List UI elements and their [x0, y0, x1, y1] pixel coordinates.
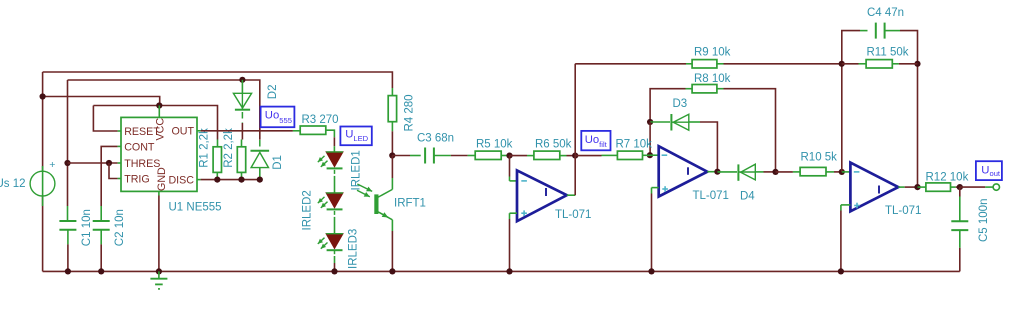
wire CONT to C2 — [101, 146, 117, 206]
wire minus2 vertical — [649, 122, 651, 155]
pin OUT stub — [197, 130, 201, 132]
node dot THRES branch — [64, 160, 70, 166]
svg-text:R5 10k: R5 10k — [476, 138, 513, 150]
svg-text:D4: D4 — [740, 190, 755, 202]
svg-text:R8 10k: R8 10k — [694, 73, 731, 85]
wire output2 stub — [707, 171, 716, 173]
node dot LED rail — [331, 268, 337, 274]
wire +12V left rail vertical from top rail to source — [42, 72, 44, 171]
svg-text:TL-071: TL-071 — [693, 190, 729, 202]
svg-text:R7 10k: R7 10k — [616, 138, 653, 150]
svg-text:IRLED2: IRLED2 — [302, 190, 314, 230]
wire GND pin down to rail — [158, 191, 160, 195]
wire plus1 stub and vertical to rail — [510, 212, 518, 214]
svg-text:IRLED1: IRLED1 — [351, 150, 363, 190]
resistor R2 body — [237, 147, 245, 173]
node dot D2 anode branch — [239, 77, 245, 83]
wire R4 bottom lead — [391, 122, 393, 132]
op-amp2 minus sign — [662, 154, 668, 156]
wire VCC feed from rail — [43, 97, 160, 106]
node dot C2 rail — [98, 268, 104, 274]
op-amp U2 TL-071 triangle — [517, 170, 567, 221]
node dot R11 left — [839, 61, 845, 67]
svg-text:+: + — [49, 159, 55, 171]
resistor R3 body — [300, 126, 326, 134]
node dot D1 bottom — [257, 177, 263, 183]
wire through D2 triangle — [241, 93, 243, 109]
op-amp1 plus sign — [521, 212, 527, 214]
op-amp U3 TL-071 triangle — [659, 146, 708, 196]
op-amp3 plus sign — [854, 205, 860, 207]
wire D2 anode lead — [241, 80, 243, 94]
node dot R4/C3/collector — [389, 152, 395, 158]
wire R11 left lead — [842, 63, 859, 65]
pin CONT stub — [118, 145, 121, 147]
diode D3 cathode bar — [670, 114, 672, 131]
capacitor C4 plates — [875, 23, 877, 39]
wire R2 top green stub — [241, 140, 243, 147]
resistor R11 body — [866, 60, 892, 68]
LED IRLED1 light arrows — [318, 156, 325, 162]
resistor R6 body — [534, 151, 560, 159]
transistor IRFT1 light arrows — [357, 184, 372, 191]
capacitor C3 plates — [424, 148, 426, 164]
node dot R1 bottom — [214, 177, 220, 183]
op-amp1 minus sign — [521, 180, 527, 182]
svg-text:R3 270: R3 270 — [302, 114, 339, 126]
svg-text:D2: D2 — [267, 84, 279, 99]
wire R1 top green stub — [217, 140, 219, 147]
wire plus3 stub and vertical — [841, 204, 851, 206]
node dot plus2 rail — [648, 268, 654, 274]
resistor R1 body — [213, 147, 221, 173]
LED IRLED3 cathode bar — [327, 249, 343, 251]
svg-text:R1 2,2k: R1 2,2k — [199, 128, 211, 168]
svg-text:R6 50k: R6 50k — [535, 138, 572, 150]
resistor R12 body — [926, 183, 951, 191]
pin THRES stub — [118, 162, 121, 164]
wire output1 stub — [567, 194, 575, 196]
wire THRES vertical to C1 — [67, 80, 69, 206]
diode D2 triangle — [233, 93, 251, 108]
diode D1 cathode bar — [251, 150, 270, 152]
resistor R4 body — [388, 96, 396, 122]
wire R3 to LED chain corner — [326, 130, 335, 137]
wire minus3 vertical up to feedback — [842, 31, 860, 172]
wire below IRLED3 to rail — [334, 250, 336, 256]
node dot VCC junction — [156, 102, 162, 108]
node dot R2 bottom — [238, 177, 244, 183]
resistor R7 body — [617, 151, 642, 159]
LED IRLED2 light arrows — [318, 197, 325, 203]
node dot TRIG branch — [106, 160, 112, 166]
wire C5 top lead — [959, 187, 961, 196]
svg-text:OUT: OUT — [171, 126, 194, 138]
wire R1 bottom lead — [216, 172, 218, 176]
LED IRLED3 triangle — [326, 234, 343, 249]
node dot rail-VCC branch — [40, 93, 46, 99]
op-amp3 minus sign — [854, 171, 860, 173]
wire through D3 triangle — [671, 121, 688, 123]
svg-text:C5 100n: C5 100n — [978, 199, 990, 242]
wire C5 bottom lead to rail — [959, 230, 961, 248]
wire left rail below source to ground rail — [42, 196, 44, 272]
wire D1 anode lead — [259, 168, 261, 180]
resistor R8 body — [692, 85, 717, 93]
node dot emitter rail — [389, 268, 395, 274]
node dot plus1 rail — [506, 268, 512, 274]
transistor IRFT1 base bar — [374, 194, 378, 214]
wire C4 right lead — [885, 30, 900, 32]
pin RESET stub — [118, 130, 121, 132]
wire R8 right corner down — [717, 88, 724, 90]
svg-text:R2 2,2k: R2 2,2k — [223, 128, 235, 168]
wire output3 stub — [898, 186, 904, 188]
svg-text:U1 NE555: U1 NE555 — [169, 201, 222, 213]
wire RESET/VCC/R1 net horizontal — [93, 106, 217, 140]
diode D3 triangle — [673, 114, 689, 130]
wire R10 to minus3 node — [826, 171, 834, 173]
pin TRIG stub — [118, 178, 121, 180]
svg-text:C4 47n: C4 47n — [867, 7, 904, 19]
svg-text:C1 10n: C1 10n — [81, 209, 93, 246]
node dot plus3 rail — [838, 268, 844, 274]
transistor IRFT1 emitter diagonal with arrow — [378, 212, 393, 220]
wire RESET branch down-left — [93, 106, 117, 132]
node dot output2 — [714, 169, 720, 175]
node dot R5/R6/minus1 — [506, 153, 512, 159]
pin DISC stub — [197, 179, 201, 181]
svg-text:GND: GND — [156, 167, 168, 191]
wire dot to C3 — [392, 155, 410, 157]
capacitor C5 plates — [951, 220, 968, 222]
wire ground rail — [43, 270, 960, 272]
wire minus3 stub — [842, 171, 851, 173]
wire C3 to R5 — [434, 155, 451, 157]
wire OUT to R3 — [201, 130, 293, 132]
wire Uofilt row to R7 — [575, 155, 601, 157]
wire D1 cathode dashed — [259, 140, 261, 150]
diode D2 cathode bar — [235, 109, 250, 111]
svg-text:C3 68n: C3 68n — [417, 133, 454, 145]
op IC U1 NE555 box — [121, 117, 197, 191]
wire R8 row — [650, 89, 685, 122]
wire node to output terminal — [960, 186, 986, 188]
wire THRES top net y80 — [68, 80, 260, 140]
node dot feedback opamp1 — [572, 153, 578, 159]
svg-text:R10 5k: R10 5k — [801, 151, 838, 163]
transistor IRFT1 collector diagonal — [378, 189, 393, 197]
wire node to R6 — [510, 155, 528, 157]
svg-text:DISC: DISC — [168, 175, 194, 187]
wire output2 to D4 — [717, 171, 737, 173]
wire D3 anode to output2 — [689, 121, 700, 123]
terminal Uout circle — [993, 184, 999, 190]
wire VCC pin stub — [158, 106, 160, 118]
wire D3 cathode lead — [650, 121, 670, 123]
wire C1 bottom lead — [67, 230, 69, 245]
wire minus2 stub — [650, 154, 659, 156]
LED IRLED2 triangle — [326, 193, 343, 208]
wire THRES horizontal — [68, 162, 118, 164]
wire R2 bottom lead — [241, 172, 243, 176]
node dot D3 left — [647, 119, 653, 125]
ground symbol — [158, 271, 160, 278]
svg-text:R11 50k: R11 50k — [867, 46, 909, 58]
resistor R10 body — [800, 167, 826, 175]
wire minus1 stub — [510, 180, 518, 182]
svg-text:THRES: THRES — [124, 158, 160, 170]
wire green through source — [42, 166, 44, 206]
wire R9 row horizontal — [575, 63, 686, 65]
wire top rail +12V to R4 — [43, 72, 393, 88]
wire LED chain segment — [334, 170, 336, 176]
wire DISC horizontal — [201, 179, 260, 181]
wire through D4 triangle — [738, 171, 755, 173]
wire C2 bottom lead — [100, 230, 102, 245]
svg-text:C2 10n: C2 10n — [114, 209, 126, 246]
wire plus2 stub and vertical — [652, 187, 659, 189]
wire node to R10 — [776, 171, 793, 173]
wire D2 cathode dashed to R2 — [241, 112, 243, 123]
LED IRLED2 cathode bar — [327, 208, 343, 210]
wire minus1 vertical — [509, 156, 511, 177]
wire R12 to C5 node — [951, 186, 956, 188]
wire output3 to R12 — [918, 186, 926, 188]
diode D4 triangle — [741, 164, 756, 180]
capacitor C2 plates — [93, 220, 110, 222]
wire R5 to node — [501, 155, 508, 157]
LED IRLED1 cathode bar — [327, 167, 343, 169]
svg-text:D1: D1 — [272, 155, 284, 170]
wire R9 right to R11 node — [717, 63, 724, 65]
wire R7 to minus2 node — [643, 154, 650, 156]
svg-text:R12 10k: R12 10k — [926, 172, 969, 184]
svg-text:D3: D3 — [673, 98, 688, 110]
svg-text:R4 280: R4 280 — [403, 94, 415, 131]
svg-text:Us 12: Us 12 — [0, 178, 26, 190]
node dot output3 feedback — [914, 184, 920, 190]
svg-text:TRIG: TRIG — [124, 173, 150, 185]
wire output1 vertical up to R9 row — [574, 64, 576, 195]
label box Uout — [976, 161, 1002, 180]
wire emitter vertical to rail — [391, 220, 393, 231]
svg-text:VCC: VCC — [154, 118, 166, 141]
wire C4 left lead — [860, 30, 868, 32]
svg-text:IRFT1: IRFT1 — [394, 198, 426, 210]
node dot GND rail — [156, 268, 162, 274]
svg-text:TL-071: TL-071 — [885, 205, 921, 217]
node dot minus2 — [647, 152, 653, 158]
label box Uo555 — [261, 107, 295, 128]
node dot R11 right — [914, 61, 920, 67]
wire LED chain segment — [334, 211, 336, 217]
op-amp1 I mark — [545, 188, 547, 196]
diode D1 triangle — [251, 152, 268, 167]
wire D4 anode to node — [755, 171, 763, 173]
label box Uofilt — [581, 131, 610, 150]
diode D4 cathode bar — [737, 164, 739, 180]
wire R6 to feedback node — [560, 155, 567, 157]
wire collector vertical — [391, 156, 393, 179]
wire TRIG jog — [109, 163, 118, 179]
node dot C5 branch — [957, 184, 963, 190]
node dot minus3 — [839, 169, 845, 175]
op-amp2 plus sign — [662, 188, 668, 190]
capacitor C1 plates — [59, 220, 76, 222]
svg-text:CONT: CONT — [124, 141, 155, 153]
wire R11 right lead — [892, 63, 899, 65]
resistor R9 body — [692, 60, 717, 68]
voltage source US1 circle — [30, 171, 55, 196]
resistor R5 body — [475, 151, 501, 159]
label box ULED — [340, 127, 371, 146]
svg-text:TL-071: TL-071 — [555, 209, 591, 221]
svg-text:IRLED3: IRLED3 — [348, 229, 360, 269]
LED IRLED3 light arrows — [318, 238, 325, 244]
op-amp U4 TL-071 triangle — [850, 163, 898, 212]
op-amp2 I mark — [687, 167, 689, 175]
LED IRLED1 triangle — [326, 152, 343, 167]
op-amp3 I mark — [878, 186, 880, 194]
svg-text:R9 10k: R9 10k — [694, 47, 731, 59]
node dot D4/R8/R10 — [772, 169, 778, 175]
node dot C1 rail — [65, 268, 71, 274]
